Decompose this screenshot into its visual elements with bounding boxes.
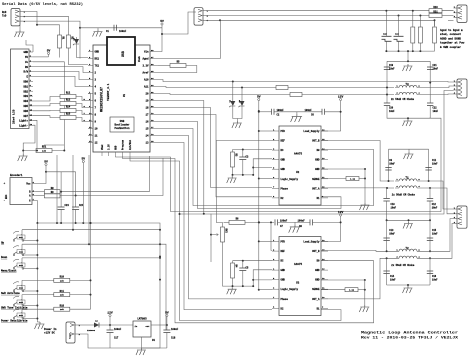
svg-text:R21: R21 <box>433 11 438 14</box>
wire C24 to bus <box>75 210 77 224</box>
pushbutton USB bootloader <box>110 117 134 132</box>
svg-text:U3: U3 <box>296 282 300 285</box>
wire C3 bottom <box>242 160 244 175</box>
wire pin20 to U2 Phase <box>158 108 272 188</box>
label C19 val <box>389 67 395 70</box>
svg-text:Agnd to Dgnd m: Agnd to Dgnd m <box>440 28 463 32</box>
wire U3 LogicSupply stub <box>259 289 272 291</box>
svg-text:RS: RS <box>25 66 29 69</box>
power 12V U2 <box>338 96 344 101</box>
wire C17 to gnd rail <box>109 333 111 349</box>
wire C24 stem <box>75 196 77 208</box>
wire staircase W1 <box>56 155 58 223</box>
wire C26 bottom stem <box>398 41 400 51</box>
resistor R7 sense <box>346 177 359 181</box>
junction zener taps <box>232 81 243 89</box>
wire T2 left rail <box>386 258 388 285</box>
resistor R24 gate <box>433 27 437 43</box>
wire sw to R18 <box>22 308 54 310</box>
junction 5V encoder <box>45 171 47 173</box>
wire swr left rail2 <box>386 88 388 104</box>
pin number 7 <box>84 112 86 115</box>
resistor R18 <box>54 304 70 311</box>
svg-text:Agnd: Agnd <box>142 58 149 61</box>
svg-text:Pushbutton: Pushbutton <box>114 127 130 130</box>
wire Menu net <box>22 257 160 259</box>
wire T1 left rail <box>388 149 390 181</box>
wire REF row <box>224 221 230 223</box>
wire U3 GND pin2 <box>253 279 272 281</box>
svg-text:PFD: PFD <box>281 130 286 133</box>
wire U2 GND pins <box>253 159 272 175</box>
wire 12V to U2 LoadSupply <box>321 101 341 131</box>
junction swr right <box>429 82 431 84</box>
junction encoder rc <box>60 191 77 197</box>
wire sw gnd stem <box>37 321 40 323</box>
wire R22 top <box>412 11 414 27</box>
svg-text:+12V DC: +12V DC <box>44 332 55 335</box>
wire 5V to Vin <box>158 25 162 51</box>
wire LCD 5V <box>33 56 49 58</box>
svg-text:Sw5: Sw5 <box>19 301 24 304</box>
capacitor C7 100nF <box>275 219 288 228</box>
label C21 <box>433 64 438 67</box>
wire pullup drop B <box>60 172 62 192</box>
wire 5V out stem <box>166 317 168 326</box>
wire gnd stem ref <box>294 222 296 224</box>
ground T1 top <box>404 152 414 159</box>
svg-text:RV2: RV2 <box>225 229 228 234</box>
wire C23 to bus <box>60 210 62 224</box>
svg-text:R13: R13 <box>66 99 71 102</box>
junction 5V out <box>166 324 168 326</box>
svg-text:OUT_A: OUT_A <box>312 298 320 301</box>
svg-text:5V: 5V <box>165 312 169 315</box>
label C13 val <box>389 232 395 235</box>
svg-text:Light-: Light- <box>19 125 29 128</box>
wire rail down to swr <box>407 51 409 59</box>
resistor R3 <box>231 152 238 167</box>
wire U2 gnd right <box>321 169 365 203</box>
junction sw rail <box>90 222 92 296</box>
svg-text:2x 56uH CM Choke: 2x 56uH CM Choke <box>392 194 416 197</box>
wire R3 C3 bottom <box>233 167 254 175</box>
capacitor C9 10nF <box>385 168 391 171</box>
label power in 2 <box>44 332 55 335</box>
svg-text:16: 16 <box>145 121 149 124</box>
wire R10 to rail <box>70 279 91 281</box>
pushbutton Sw6 Power Recalibrate <box>13 309 25 319</box>
svg-text:DB1: DB1 <box>23 85 28 88</box>
resistor R4 <box>231 263 238 278</box>
wire T1 rail to T2 <box>386 220 388 251</box>
junction J2 feed <box>161 33 163 35</box>
wire pullup drop A <box>75 172 77 196</box>
wire LCD Light+ <box>33 120 37 150</box>
wire R11 to rail <box>70 294 91 296</box>
svg-text:Encoder1: Encoder1 <box>10 173 23 177</box>
wire 5V pullup feed <box>46 171 76 173</box>
capacitor C16 10nF <box>427 271 433 274</box>
connector J6 aux <box>454 5 468 22</box>
wire T2 bottom row <box>387 284 430 286</box>
wire Sw5 upper stub <box>21 295 23 306</box>
wire sw to R11 <box>22 294 54 296</box>
label Menu/Exact <box>1 269 17 273</box>
svg-text:A10: A10 <box>144 79 149 82</box>
junction RV1 <box>22 150 65 152</box>
junction switch common <box>36 240 38 320</box>
label underline Down <box>1 258 7 260</box>
wire C18 gnd <box>166 333 168 349</box>
wire R20 out <box>442 10 454 12</box>
capacitor C3 <box>239 156 249 160</box>
label C22 val <box>433 110 439 113</box>
svg-text:13: 13 <box>145 142 149 145</box>
resistor R10 <box>54 276 70 283</box>
resistor R19 sense <box>345 288 358 292</box>
wire D1 bottom <box>77 46 89 58</box>
resistor R6 <box>229 218 245 225</box>
wire Sw6 contact <box>23 318 37 320</box>
wire gnd T1 stem <box>408 149 410 152</box>
svg-text:OUT_B: OUT_B <box>312 140 320 143</box>
resistor R22 <box>411 27 415 43</box>
svg-text:20: 20 <box>145 93 149 96</box>
diode D2 1N4008 <box>94 320 99 328</box>
wire T1 bottom row <box>387 219 430 221</box>
wire R2 bottom to TX1 <box>68 48 88 65</box>
wire C23 stem <box>60 192 62 207</box>
wire pin19 to U2 D2 <box>158 115 272 197</box>
label C13 <box>389 229 394 232</box>
svg-text:PFD: PFD <box>281 241 286 244</box>
svg-text:Power: Power <box>69 332 72 339</box>
svg-text:VBat: VBat <box>101 144 104 150</box>
wire T3-4 to J3 <box>421 93 454 96</box>
wire R4 C5 bottom <box>233 278 254 286</box>
svg-text:A14/DAC: A14/DAC <box>129 139 132 150</box>
capacitor C21 10nF <box>427 67 433 70</box>
wire C3 stem top <box>242 150 244 158</box>
svg-text:Magnetic Loop Antenna Controll: Magnetic Loop Antenna Controller <box>361 331 458 336</box>
label C8 <box>299 225 302 228</box>
wire Sw2 upper stub <box>21 244 23 255</box>
svg-text:100nF: 100nF <box>305 109 313 112</box>
wire U2 LogicSupply stub <box>259 178 272 180</box>
wire REF row4 <box>313 221 341 223</box>
potentiometer RV1 10k <box>36 146 52 153</box>
wire r22 bottom <box>412 43 414 51</box>
wire R4 top <box>232 261 234 263</box>
wire LCD GND <box>26 40 33 52</box>
pushbutton Sw4 SwR AutoTune <box>13 282 25 292</box>
svg-text:14: 14 <box>145 135 149 138</box>
wire C12 stem <box>429 188 431 199</box>
junction T2 <box>386 250 431 259</box>
wire Sw3 contact <box>23 268 37 270</box>
wire R3 top <box>232 150 234 153</box>
wire diode to reg <box>99 324 133 326</box>
connector J4 stepper motor <box>454 206 468 228</box>
wire T1 gnd rail top <box>389 148 429 150</box>
label C15 <box>432 229 437 232</box>
label C9 val <box>389 162 395 165</box>
capacitor C11 10nF <box>425 168 431 171</box>
svg-text:GND: GND <box>281 279 286 282</box>
wire Sw4 upper stub <box>21 280 23 291</box>
transformer T2 CM choke <box>395 247 421 259</box>
junction C17 <box>109 324 111 326</box>
junction 5V rail <box>258 110 260 291</box>
wire U3 sense join <box>358 289 365 291</box>
label C12 <box>432 203 437 206</box>
svg-text:Down: Down <box>1 256 8 259</box>
wire U3 GND pins <box>253 270 272 286</box>
wire Sw4 contact <box>23 290 37 292</box>
svg-text:A11: A11 <box>144 86 149 89</box>
wire LCD RW <box>33 72 88 80</box>
svg-text:GND: GND <box>115 145 118 150</box>
resistor R9 <box>44 191 60 198</box>
wire pin22 to T3-3 <box>158 94 242 95</box>
capacitor C13 10nF <box>383 238 389 241</box>
junction T2 bottom <box>407 284 409 286</box>
title line 1 <box>361 331 458 336</box>
svg-text:Load_Supply: Load_Supply <box>303 241 320 244</box>
svg-text:Power Recalibrate: Power Recalibrate <box>1 319 28 323</box>
svg-text:5V: 5V <box>25 56 29 59</box>
wire pin22 seg2 <box>242 94 290 96</box>
pushbutton Sw1 Up <box>13 231 25 241</box>
junction top right taps <box>385 10 435 22</box>
wire serial gnd stem <box>19 25 21 30</box>
rotary encoder Encoder1 <box>4 173 37 205</box>
svg-text:10nF: 10nF <box>389 232 395 235</box>
svg-text:Phase: Phase <box>281 187 289 190</box>
resistor R12 <box>60 92 76 99</box>
wire LCD DB7 to resistor <box>33 116 60 118</box>
wire encoder A <box>36 195 44 197</box>
svg-text:LM7805: LM7805 <box>137 318 147 321</box>
connector J2 control serial <box>194 8 209 25</box>
wire 5V LCD stem <box>48 55 50 57</box>
label Up <box>1 242 5 245</box>
svg-text:10nF: 10nF <box>432 232 438 235</box>
capacitor C2 100nF <box>272 109 285 117</box>
capacitor C24 <box>72 204 84 210</box>
svg-text:R/W: R/W <box>23 71 28 74</box>
svg-text:15: 15 <box>145 128 149 131</box>
power 5V logic rail <box>257 96 261 101</box>
wire LCD DB5 to resistor <box>33 104 60 106</box>
wire gnd stem C1 <box>97 28 99 30</box>
svg-text:USB: USB <box>121 51 125 57</box>
svg-text:R20: R20 <box>433 6 438 9</box>
svg-text:Vcc: Vcc <box>26 183 31 186</box>
svg-text:100nF: 100nF <box>298 219 306 222</box>
label power jack <box>69 332 72 339</box>
junction T1 <box>386 187 431 189</box>
wire T1 right rail <box>428 149 430 181</box>
svg-text:ENC: ENC <box>5 194 8 199</box>
capacitor C17 100uF electrolytic <box>107 328 122 340</box>
wire R16 to T3-1 <box>288 87 394 89</box>
svg-text:GND: GND <box>281 168 286 171</box>
svg-text:Sw4: Sw4 <box>19 287 24 290</box>
svg-text:R12: R12 <box>66 92 71 95</box>
wire zener bottoms <box>233 108 242 119</box>
junction U2 RC <box>242 149 244 151</box>
wire C10 stem <box>386 188 388 199</box>
svg-text:10nF: 10nF <box>389 110 395 113</box>
svg-text:DB6: DB6 <box>23 110 28 113</box>
label C22 <box>433 107 438 110</box>
junction U2 sense <box>364 168 366 180</box>
potentiometer RV2 <box>221 227 228 242</box>
svg-text:C25: C25 <box>383 33 388 36</box>
label underline Up <box>1 244 4 246</box>
wire encoder G to bus <box>36 201 37 224</box>
power 5V top <box>160 20 164 25</box>
ground U3 RC <box>227 287 237 294</box>
power 5V out <box>165 312 169 317</box>
switch common vertical <box>36 223 38 322</box>
junction swr bottom <box>407 117 409 119</box>
label power in 1 <box>44 328 57 331</box>
svg-text:100uF: 100uF <box>171 328 179 331</box>
svg-text:Program: Program <box>122 139 125 150</box>
resistor R20 <box>429 6 442 13</box>
transformer T3 CM choke <box>395 83 421 95</box>
label C19 <box>389 64 394 67</box>
wire C25 top stem <box>385 11 387 37</box>
junction swr top <box>407 60 409 62</box>
svg-text:18: 18 <box>145 107 149 110</box>
junction RV2 wiper <box>210 234 212 236</box>
junction U2 gnd <box>252 167 254 176</box>
wire staircase W3 Down <box>88 155 90 244</box>
wire 12V stem <box>109 317 111 326</box>
wire encoder A to teensy <box>60 158 163 196</box>
svg-text:100nF: 100nF <box>280 219 288 222</box>
wire pin24 A10 long <box>158 80 454 83</box>
label T1 choke value <box>392 194 416 197</box>
svg-text:U1: U1 <box>123 93 126 97</box>
svg-text:Sw1: Sw1 <box>19 236 24 239</box>
label C16 val <box>432 278 438 281</box>
svg-text:DB7: DB7 <box>23 115 28 118</box>
svg-text:1N4008: 1N4008 <box>87 329 96 332</box>
svg-text:R14: R14 <box>66 106 71 109</box>
wire C5 bottom <box>242 271 244 287</box>
svg-text:Menu/Exact: Menu/Exact <box>1 269 17 273</box>
wire J2 pin1 long <box>206 10 454 12</box>
svg-text:C17: C17 <box>114 337 119 340</box>
wire zener gnd stem <box>236 119 238 122</box>
label underline Power Recalibrate <box>1 322 27 324</box>
wire LCD Light- <box>23 125 35 152</box>
ground RV1 <box>18 154 28 161</box>
pin number 8 <box>84 119 86 122</box>
svg-text:TxD: TxD <box>2 15 7 18</box>
wire J2 pin3 long <box>206 20 435 26</box>
label C21 val <box>433 67 439 70</box>
svg-text:together at Pow: together at Pow <box>440 41 465 45</box>
wire T2 right rail <box>429 258 431 285</box>
svg-text:10k: 10k <box>60 308 65 311</box>
wire swr top row <box>387 60 430 62</box>
label underline SwR AutoTune <box>1 294 20 296</box>
wire REF dac vertical <box>210 214 212 262</box>
wire swr left rail <box>386 61 388 87</box>
connector J3 SWR coupler <box>454 79 468 98</box>
wire U2 sense join <box>359 178 365 180</box>
label C11 val <box>432 162 438 165</box>
label Down <box>1 256 8 259</box>
wire C18 stem <box>166 325 168 330</box>
wire R15 to teensy pin <box>76 118 88 122</box>
wire RV1 to ground <box>22 151 24 155</box>
resistor R8 <box>44 187 60 194</box>
power 12V U3 <box>338 211 344 216</box>
wire encoder B to teensy <box>60 156 149 192</box>
wire C26 top stem <box>398 16 400 37</box>
wire RV2 top <box>222 222 224 227</box>
wire U2 RC left <box>233 149 273 151</box>
connector J5 power in <box>66 322 81 343</box>
wire U2 GND pin2 <box>253 167 272 169</box>
label T3 choke value <box>391 98 415 101</box>
capacitor C8 100nF <box>310 219 313 225</box>
wire U2 PFD stub <box>259 130 272 132</box>
junction U3 RC <box>242 260 244 262</box>
svg-text:Light+: Light+ <box>19 120 29 123</box>
label C20 <box>389 107 394 110</box>
wire decoupling row U2 segC <box>325 111 341 113</box>
wire LCD Vo to RV1 wiper <box>33 62 64 151</box>
svg-text:SENSE: SENSE <box>312 288 320 291</box>
wire serial pin3 to D1 <box>23 21 80 58</box>
svg-text:10: 10 <box>95 128 99 131</box>
USB connector on Teensy <box>107 37 135 65</box>
svg-text:12V: 12V <box>338 96 344 99</box>
wire R12 to teensy pin <box>76 97 88 101</box>
ground U2 RC <box>227 176 237 183</box>
wire pin16 to U3 Phase <box>158 136 272 299</box>
svg-text:10nF: 10nF <box>433 110 439 113</box>
svg-text:Logic_Supply: Logic_Supply <box>281 178 299 181</box>
capacitor C14 10nF <box>383 271 389 274</box>
power 5V LCD <box>47 50 51 55</box>
wire Sw3 upper stub <box>21 258 23 269</box>
svg-text:GND: GND <box>281 269 286 272</box>
svg-text:17: 17 <box>145 114 149 117</box>
wire T1 rail2 to T2 <box>429 220 431 251</box>
wire LCD RS to teensy <box>33 67 88 73</box>
label C6 <box>311 114 314 117</box>
svg-text:100nF: 100nF <box>119 30 127 33</box>
wire R13 to teensy pin <box>76 104 88 108</box>
svg-text:TX1: TX1 <box>95 65 100 68</box>
wire sw to R10 <box>22 279 54 281</box>
pin number 5 <box>84 98 86 101</box>
svg-text:5V: 5V <box>81 158 85 161</box>
wire T1-4 to J4 pin2 <box>421 188 454 214</box>
power 12V rail source <box>107 312 113 317</box>
svg-text:C26: C26 <box>395 33 400 36</box>
wire T2-2 to J4 pin3 <box>421 219 454 252</box>
